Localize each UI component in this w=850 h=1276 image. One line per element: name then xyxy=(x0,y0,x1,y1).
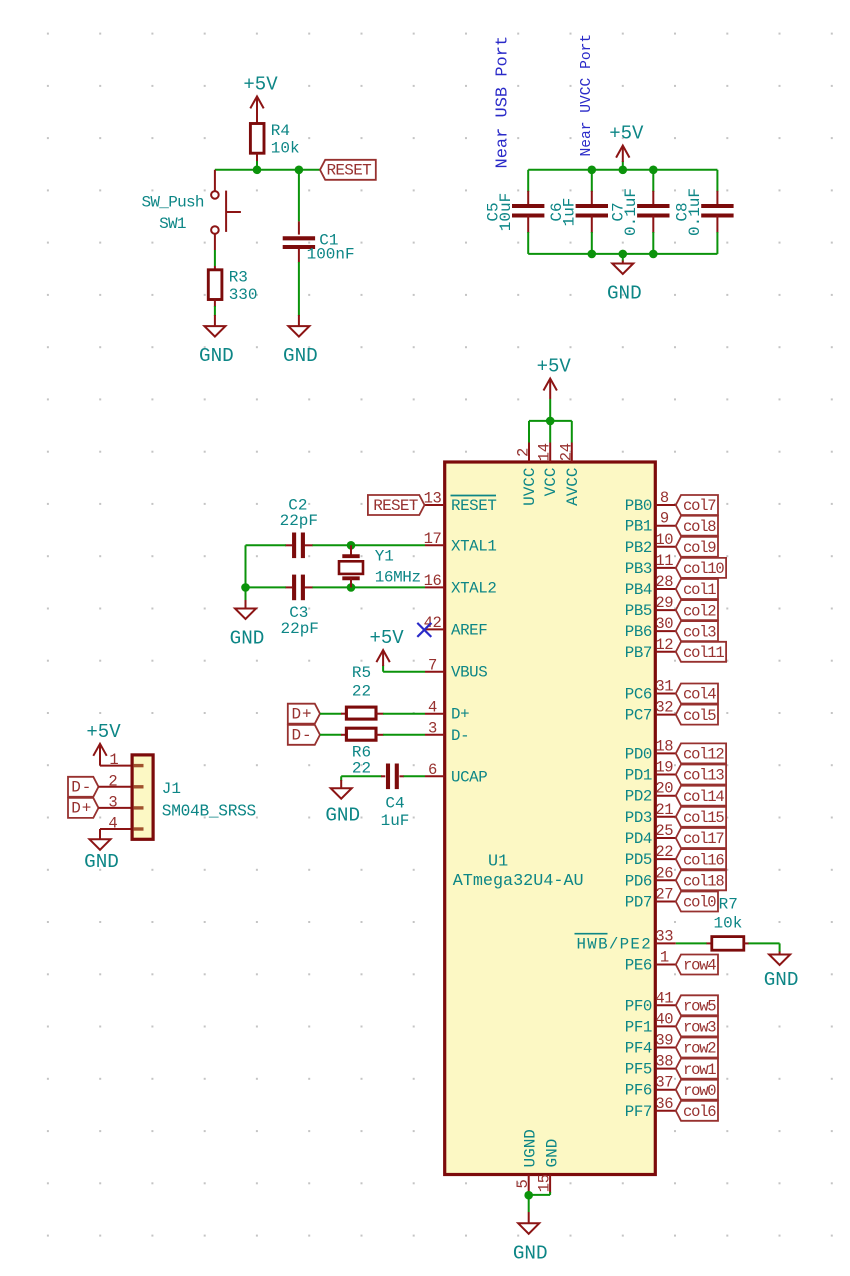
wire caps gnd xyxy=(622,254,624,262)
label col7 xyxy=(676,495,718,515)
svg-text:+5V: +5V xyxy=(537,356,572,378)
svg-text:16: 16 xyxy=(424,572,442,590)
capacitor C8 xyxy=(701,204,733,208)
pin 30 PB6 xyxy=(655,630,676,632)
pin 38 PF5 xyxy=(655,1068,676,1070)
label col1 xyxy=(676,579,718,599)
crystal Y1 xyxy=(350,545,352,556)
svg-text:16MHz: 16MHz xyxy=(375,569,421,587)
ground (R7) xyxy=(769,955,790,966)
svg-text:R7: R7 xyxy=(719,896,738,914)
svg-text:D-: D- xyxy=(292,727,313,745)
label row2 xyxy=(676,1038,718,1058)
power +5V (J1) xyxy=(99,744,101,766)
svg-text:col13: col13 xyxy=(683,767,724,785)
svg-text:12: 12 xyxy=(655,636,673,654)
pin 8 PB0 xyxy=(655,504,676,506)
label D- (J1) xyxy=(68,777,99,797)
wire R3 to gnd xyxy=(214,300,216,308)
svg-text:1: 1 xyxy=(660,949,669,967)
svg-text:PB4: PB4 xyxy=(625,581,652,599)
svg-text:D-: D- xyxy=(451,727,469,745)
svg-text:PD6: PD6 xyxy=(625,872,652,890)
ground (R3) xyxy=(204,326,225,337)
wire C4 gnd drop xyxy=(340,776,342,781)
pin 1 PE6 xyxy=(655,964,676,966)
svg-text:PC7: PC7 xyxy=(625,707,652,725)
wire cap C8 top xyxy=(716,170,718,192)
pin 9 PB1 xyxy=(655,525,676,527)
svg-text:9: 9 xyxy=(660,510,669,528)
capacitor C2 xyxy=(305,544,313,546)
pin 41 PF0 xyxy=(655,1004,676,1006)
svg-text:UCAP: UCAP xyxy=(451,768,487,786)
ground (C1) xyxy=(288,326,309,337)
wire cap C6 top xyxy=(591,170,593,192)
label col5 xyxy=(676,705,718,725)
resistor R7 xyxy=(712,937,744,951)
wire R4 to node xyxy=(256,153,258,162)
pin 14 VCC xyxy=(549,443,551,463)
node junction R4 xyxy=(253,166,262,175)
svg-text:13: 13 xyxy=(424,490,442,508)
svg-text:17: 17 xyxy=(424,530,442,548)
svg-text:33: 33 xyxy=(655,927,673,945)
svg-text:PD2: PD2 xyxy=(625,788,652,806)
ground (U1) xyxy=(518,1223,539,1234)
svg-text:PF7: PF7 xyxy=(625,1103,652,1121)
svg-text:3: 3 xyxy=(108,793,117,811)
pin 42 AREF xyxy=(425,628,445,630)
pin 18 PD0 xyxy=(655,752,676,754)
svg-text:col17: col17 xyxy=(683,830,724,848)
svg-text:19: 19 xyxy=(655,759,673,777)
svg-text:1uF: 1uF xyxy=(381,812,410,830)
svg-text:PD1: PD1 xyxy=(625,767,652,785)
svg-text:col2: col2 xyxy=(683,602,716,620)
svg-text:PC6: PC6 xyxy=(625,686,652,704)
wire node to C1 xyxy=(298,170,300,222)
svg-text:PD7: PD7 xyxy=(625,894,652,912)
pin 11 PB3 xyxy=(655,567,676,569)
svg-text:row5: row5 xyxy=(683,998,716,1016)
svg-text:PD0: PD0 xyxy=(625,745,652,763)
svg-text:PF0: PF0 xyxy=(625,997,652,1015)
svg-text:AREF: AREF xyxy=(451,621,487,639)
svg-text:40: 40 xyxy=(655,1010,673,1028)
svg-text:col16: col16 xyxy=(683,851,724,869)
svg-text:ATmega32U4-AU: ATmega32U4-AU xyxy=(453,872,584,891)
svg-text:26: 26 xyxy=(655,864,673,882)
pin 25 PD4 xyxy=(655,837,676,839)
pin 2 UVCC xyxy=(528,443,530,463)
svg-text:+5V: +5V xyxy=(243,73,278,95)
svg-text:AVCC: AVCC xyxy=(564,468,582,506)
svg-text:20: 20 xyxy=(655,780,673,798)
svg-text:22pF: 22pF xyxy=(280,620,318,638)
svg-text:31: 31 xyxy=(655,678,673,696)
svg-text:VBUS: VBUS xyxy=(451,664,487,682)
pin 3 D- xyxy=(425,734,445,736)
node junction top xyxy=(546,417,555,426)
wire XTAL2 xyxy=(312,586,425,588)
svg-text:PF5: PF5 xyxy=(625,1061,652,1079)
pin 20 PD2 xyxy=(655,795,676,797)
svg-text:XTAL1: XTAL1 xyxy=(451,537,496,555)
svg-text:25: 25 xyxy=(655,822,673,840)
svg-text:PB1: PB1 xyxy=(625,518,652,536)
label col17 xyxy=(676,828,726,848)
svg-text:32: 32 xyxy=(655,699,673,717)
pin 29 PB5 xyxy=(655,609,676,611)
svg-text:col7: col7 xyxy=(683,497,716,515)
svg-text:PF1: PF1 xyxy=(625,1018,652,1036)
pin 37 PF6 xyxy=(655,1089,676,1091)
svg-text:D-: D- xyxy=(71,779,92,797)
svg-text:GND: GND xyxy=(230,628,265,650)
wire R6 to pin3 xyxy=(376,734,384,736)
svg-text:RESET: RESET xyxy=(373,497,418,515)
wire D+ to R5 xyxy=(320,713,342,715)
power +5V (caps) xyxy=(622,161,624,170)
svg-text:28: 28 xyxy=(655,573,673,591)
svg-text:GND: GND xyxy=(283,345,318,367)
svg-text:UGND: UGND xyxy=(522,1129,540,1167)
svg-text:GND: GND xyxy=(84,851,119,873)
svg-text:row0: row0 xyxy=(683,1082,716,1100)
connector J1 body xyxy=(132,755,153,839)
label row5 xyxy=(676,995,718,1015)
label D+ (J1) xyxy=(68,798,99,818)
svg-text:SW_Push: SW_Push xyxy=(142,194,204,212)
switch SW1 wire top xyxy=(214,170,216,191)
capacitor C5 xyxy=(512,204,544,208)
svg-text:100nF: 100nF xyxy=(307,246,355,264)
pin 24 AVCC xyxy=(571,443,573,463)
wire bottom rail xyxy=(528,253,717,255)
svg-text:SM04B_SRSS: SM04B_SRSS xyxy=(162,802,256,820)
svg-text:+5V: +5V xyxy=(609,123,644,145)
svg-text:+5V: +5V xyxy=(86,721,121,743)
svg-text:22: 22 xyxy=(352,682,371,700)
svg-text:14: 14 xyxy=(536,443,554,461)
pin 22 PD5 xyxy=(655,858,676,860)
svg-text:27: 27 xyxy=(655,886,673,904)
label col14 xyxy=(676,786,726,806)
node junction XTAL2 xyxy=(347,583,356,592)
svg-text:39: 39 xyxy=(655,1032,673,1050)
label col3 xyxy=(676,621,718,641)
svg-text:row4: row4 xyxy=(683,957,716,975)
label col8 xyxy=(676,516,718,536)
pin 26 PD6 xyxy=(655,879,676,881)
svg-text:D+: D+ xyxy=(292,706,313,724)
label col6 xyxy=(676,1101,718,1121)
svg-text:1uF: 1uF xyxy=(561,198,579,227)
svg-text:18: 18 xyxy=(655,737,673,755)
svg-text:col9: col9 xyxy=(683,539,716,557)
wire gnd to C4 xyxy=(341,775,382,777)
svg-text:7: 7 xyxy=(428,656,437,674)
resistor R6 xyxy=(346,728,376,740)
svg-text:GND: GND xyxy=(325,805,360,827)
IC U1 ATmega32U4-AU body xyxy=(445,462,656,1175)
svg-text:GND: GND xyxy=(513,1242,548,1264)
pin 40 PF1 xyxy=(655,1025,676,1027)
wire bottom gnd xyxy=(549,1192,551,1195)
capacitor C7 xyxy=(637,204,669,208)
svg-text:4: 4 xyxy=(108,815,117,833)
label col18 xyxy=(676,870,726,890)
svg-text:row1: row1 xyxy=(683,1061,716,1079)
wire cap C8 bottom xyxy=(716,216,718,234)
wire XTAL1 xyxy=(312,544,425,546)
wire top power xyxy=(528,421,530,443)
wire reset net xyxy=(215,169,320,171)
label row1 xyxy=(676,1059,718,1079)
power +5V (VBUS) xyxy=(383,671,425,673)
resistor R5 xyxy=(346,707,376,719)
svg-text:GND: GND xyxy=(764,969,799,991)
resistor R3 xyxy=(208,270,222,300)
node junction XTAL1 xyxy=(347,541,356,550)
svg-text:29: 29 xyxy=(655,594,673,612)
svg-text:col4: col4 xyxy=(683,686,716,704)
svg-text:10uF: 10uF xyxy=(497,193,515,231)
svg-text:col14: col14 xyxy=(683,788,724,806)
svg-text:SW1: SW1 xyxy=(159,215,186,233)
svg-text:PB5: PB5 xyxy=(625,602,652,620)
label col16 xyxy=(676,849,726,869)
svg-text:22: 22 xyxy=(655,843,673,861)
pin 19 PD1 xyxy=(655,774,676,776)
svg-text:GND: GND xyxy=(607,283,642,305)
svg-text:col11: col11 xyxy=(683,644,724,662)
label row4 xyxy=(676,955,718,975)
label D- (net) xyxy=(288,725,320,745)
wire R7 to gnd xyxy=(744,942,749,944)
wire pin33 to R7 xyxy=(676,942,707,944)
svg-text:RESET: RESET xyxy=(327,162,372,180)
svg-text:row2: row2 xyxy=(683,1040,716,1058)
wire cap C7 top xyxy=(652,170,654,192)
svg-text:col0: col0 xyxy=(683,894,716,912)
pin 32 PC7 xyxy=(655,714,676,716)
label row0 xyxy=(676,1080,718,1100)
svg-text:PF4: PF4 xyxy=(625,1040,652,1058)
wire C1 to gnd xyxy=(298,249,300,263)
svg-text:22pF: 22pF xyxy=(280,512,318,530)
svg-text:PD5: PD5 xyxy=(625,851,652,869)
node junction C1 xyxy=(295,166,304,175)
svg-text:VCC: VCC xyxy=(542,468,560,497)
ground (xtal) xyxy=(235,609,256,620)
svg-text:Near USB Port: Near USB Port xyxy=(494,36,513,169)
pin 10 PB2 xyxy=(655,546,676,548)
svg-text:Y1: Y1 xyxy=(375,548,394,566)
svg-text:2: 2 xyxy=(108,772,117,790)
capacitor C6 xyxy=(576,204,608,208)
svg-text:PD3: PD3 xyxy=(625,809,652,827)
svg-text:10k: 10k xyxy=(714,915,743,933)
wire caps left xyxy=(246,544,286,546)
pin 33 HWB/PE2 xyxy=(655,942,676,944)
label col10 xyxy=(676,558,726,578)
svg-text:D+: D+ xyxy=(451,706,469,724)
pin 27 PD7 xyxy=(655,901,676,903)
svg-text:col12: col12 xyxy=(683,746,724,764)
svg-text:22: 22 xyxy=(352,760,371,778)
pin 17 XTAL1 xyxy=(425,544,445,546)
svg-text:R4: R4 xyxy=(271,122,290,140)
svg-text:PB0: PB0 xyxy=(625,497,652,515)
svg-text:PB6: PB6 xyxy=(625,623,652,641)
svg-text:Near UVCC Port: Near UVCC Port xyxy=(579,34,595,157)
svg-text:GND: GND xyxy=(199,345,234,367)
svg-text:37: 37 xyxy=(655,1074,673,1092)
pin 6 UCAP xyxy=(425,775,445,777)
label col9 xyxy=(676,537,718,557)
wire D- to R6 xyxy=(320,734,342,736)
ground (C4) xyxy=(331,788,352,799)
svg-text:10: 10 xyxy=(655,531,673,549)
ground (J1) xyxy=(90,839,111,850)
svg-text:C4: C4 xyxy=(385,795,404,813)
svg-text:col5: col5 xyxy=(683,707,716,725)
svg-text:D+: D+ xyxy=(71,800,92,818)
svg-text:col18: col18 xyxy=(683,873,724,891)
pin 36 PF7 xyxy=(655,1110,676,1112)
pin 21 PD3 xyxy=(655,816,676,818)
svg-text:330: 330 xyxy=(229,286,258,304)
wire cap C5 bottom xyxy=(527,216,529,234)
wire cap C7 bottom xyxy=(652,216,654,234)
label RESET (U1) xyxy=(368,495,425,515)
label row3 xyxy=(676,1016,718,1036)
label D+ (net) xyxy=(288,704,320,724)
svg-text:R5: R5 xyxy=(352,664,371,682)
label col11 xyxy=(676,642,726,662)
pin 7 VBUS xyxy=(425,671,445,673)
no-connect AREF xyxy=(417,623,431,637)
svg-text:8: 8 xyxy=(660,489,669,507)
svg-text:0.1uF: 0.1uF xyxy=(686,188,704,236)
pin 39 PF4 xyxy=(655,1047,676,1049)
wire xtal gnd xyxy=(245,587,247,601)
svg-text:row3: row3 xyxy=(683,1019,716,1037)
svg-text:6: 6 xyxy=(428,761,437,779)
svg-text:col8: col8 xyxy=(683,518,716,536)
pin 4 J1 gnd xyxy=(100,828,132,830)
capacitor C1 xyxy=(283,236,315,240)
label col0 xyxy=(676,892,718,912)
svg-text:4: 4 xyxy=(428,698,437,716)
svg-text:21: 21 xyxy=(655,801,673,819)
label col12 xyxy=(676,743,726,763)
node junction gnd xtal xyxy=(241,583,250,592)
svg-text:5: 5 xyxy=(514,1179,532,1188)
svg-text:0.1uF: 0.1uF xyxy=(622,188,640,236)
svg-text:15: 15 xyxy=(536,1174,554,1192)
wire SW1 to R3 xyxy=(214,234,216,250)
capacitor C3 xyxy=(305,586,313,588)
pin 12 PB7 xyxy=(655,651,676,653)
power +5V (R4) xyxy=(256,96,258,123)
svg-text:XTAL2: XTAL2 xyxy=(451,579,496,597)
svg-text:col6: col6 xyxy=(683,1103,716,1121)
label col15 xyxy=(676,807,726,827)
node junction bottom xyxy=(524,1191,533,1200)
label col4 xyxy=(676,684,718,704)
pin 16 XTAL2 xyxy=(425,586,445,588)
svg-text:RESET: RESET xyxy=(451,497,496,515)
svg-text:GND: GND xyxy=(543,1139,561,1168)
svg-text:UVCC: UVCC xyxy=(521,468,539,506)
switch SW1 xyxy=(211,191,219,199)
svg-text:2: 2 xyxy=(515,448,533,457)
label RESET (net) xyxy=(320,160,376,180)
svg-text:11: 11 xyxy=(655,552,673,570)
svg-text:U1: U1 xyxy=(488,852,508,871)
svg-text:+5V: +5V xyxy=(369,627,404,649)
wire C4 to pin6 xyxy=(399,775,404,777)
svg-text:10k: 10k xyxy=(271,139,300,157)
svg-text:PB7: PB7 xyxy=(625,644,652,662)
pin 31 PC6 xyxy=(655,693,676,695)
svg-text:HWB/PE2: HWB/PE2 xyxy=(577,935,652,953)
svg-text:PB3: PB3 xyxy=(625,560,652,578)
pin 15 GND xyxy=(549,1175,551,1194)
label col2 xyxy=(676,600,718,620)
power +5V (U1) xyxy=(549,380,551,399)
pin 13 RESET xyxy=(425,504,445,506)
svg-text:col1: col1 xyxy=(683,581,716,599)
svg-text:24: 24 xyxy=(557,443,575,461)
svg-text:R3: R3 xyxy=(229,268,248,286)
svg-text:30: 30 xyxy=(655,615,673,633)
label col13 xyxy=(676,765,726,785)
resistor R4 xyxy=(250,124,264,154)
svg-text:PE6: PE6 xyxy=(625,957,652,975)
capacitor C4 xyxy=(386,764,390,790)
svg-text:PD4: PD4 xyxy=(625,830,652,848)
svg-text:col10: col10 xyxy=(683,560,724,578)
svg-text:col15: col15 xyxy=(683,809,724,827)
pin 4 D+ xyxy=(425,713,445,715)
svg-text:38: 38 xyxy=(655,1053,673,1071)
svg-text:J1: J1 xyxy=(162,780,181,798)
svg-text:41: 41 xyxy=(655,989,673,1007)
node junctions rails xyxy=(588,166,597,175)
wire R5 to pin4 xyxy=(376,713,384,715)
wire top rail xyxy=(528,169,717,171)
svg-text:PF6: PF6 xyxy=(625,1082,652,1100)
svg-text:PB2: PB2 xyxy=(625,539,652,557)
wire cap C6 bottom xyxy=(591,216,593,234)
wire cap C5 top xyxy=(527,170,529,192)
svg-text:col3: col3 xyxy=(683,623,716,641)
svg-text:3: 3 xyxy=(428,720,437,738)
pin 28 PB4 xyxy=(655,588,676,590)
ground (caps) xyxy=(612,264,633,275)
pin 5 UGND xyxy=(528,1175,530,1196)
svg-text:1: 1 xyxy=(109,751,118,769)
svg-text:36: 36 xyxy=(655,1095,673,1113)
